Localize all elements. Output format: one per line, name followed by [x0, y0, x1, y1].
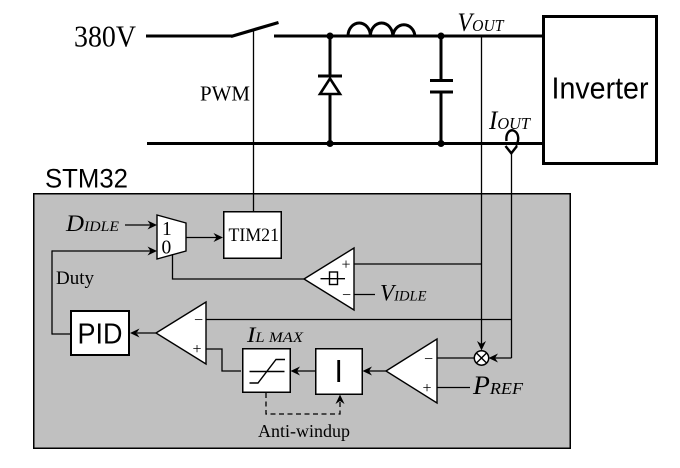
wire DIDLE to mux	[125, 224, 151, 226]
wire top rail left segment	[146, 35, 233, 38]
anti-windup dashed feedback	[266, 393, 340, 414]
wire summing S1 to PID	[137, 332, 157, 334]
svg-text:−: −	[342, 287, 351, 304]
svg-text:Anti-windup: Anti-windup	[258, 421, 350, 441]
capacitor C1	[430, 37, 453, 143]
svg-text:STM32: STM32	[45, 164, 128, 194]
current sensor loop on IOUT	[506, 130, 519, 153]
saturation block (IL MAX limiter)	[243, 349, 291, 393]
arrow into mux input 1	[148, 221, 158, 230]
junction node capacitor top	[438, 33, 445, 40]
PID controller block	[71, 311, 129, 355]
wire PWM gate line	[253, 29, 255, 211]
wire comparator output to mux select	[173, 254, 305, 279]
svg-text:+: +	[342, 257, 351, 274]
comparator U1 (hysteresis)	[304, 248, 354, 310]
wire duty vertical	[51, 250, 53, 334]
svg-text:PID: PID	[78, 319, 123, 351]
arrow into PID	[130, 329, 140, 338]
svg-text:−: −	[194, 312, 203, 329]
wire mux output to TIM21	[186, 237, 217, 239]
svg-text:PWM: PWM	[200, 82, 250, 106]
wire IOUT feedback to S1 minus	[206, 319, 512, 321]
svg-text:+: +	[423, 380, 432, 397]
wire VOUT to comparator plus	[354, 263, 482, 265]
junction node capacitor bottom	[438, 140, 445, 147]
inductor L1	[348, 23, 415, 36]
arrow into TIM21	[214, 233, 224, 242]
mux selector	[157, 215, 186, 259]
wire bottom rail	[147, 142, 543, 145]
wire VOUT sense line	[481, 37, 483, 344]
svg-text:TIM21: TIM21	[229, 225, 280, 246]
wire IOUT sense line	[511, 153, 513, 358]
integrator I block	[316, 349, 363, 395]
svg-text:Duty: Duty	[56, 268, 95, 289]
diode D1	[318, 37, 342, 143]
wire top rail switch to inverter	[274, 35, 543, 38]
multiplier (power calc)	[474, 351, 488, 365]
arrow anti-windup into I block	[336, 395, 345, 405]
junction node diode bottom	[327, 140, 334, 147]
TIM21 block	[224, 212, 282, 259]
wire multiplier to S2 minus	[437, 357, 474, 359]
wire S2 plus stub	[437, 387, 470, 389]
wire duty to mux input 0	[52, 250, 151, 252]
switch SW (PWM blade)	[231, 23, 279, 37]
svg-text:Inverter: Inverter	[552, 71, 649, 106]
arrow VOUT into multiplier	[477, 341, 486, 351]
wire S2 to I block	[369, 370, 387, 372]
summing junction S1	[156, 302, 206, 364]
arrow into I block	[363, 367, 373, 376]
svg-text:+: +	[193, 341, 202, 358]
Inverter block	[544, 17, 657, 164]
summing junction S2	[386, 339, 437, 403]
arrow into saturation	[291, 367, 301, 376]
wire saturation output to S1 plus	[206, 349, 241, 371]
svg-text:−: −	[424, 351, 433, 368]
wire I block to saturation	[297, 370, 315, 372]
svg-text:0: 0	[162, 238, 172, 259]
wire IOUT into multiplier	[494, 357, 512, 359]
arrow IOUT into multiplier	[489, 354, 499, 363]
svg-text:380V: 380V	[74, 19, 137, 54]
wire PID output to duty line	[52, 333, 70, 335]
wire comparator minus stub	[354, 294, 375, 296]
STM32 box (microcontroller region)	[34, 194, 571, 449]
junction node diode top	[327, 33, 334, 40]
arrow into mux input 0	[148, 247, 158, 256]
